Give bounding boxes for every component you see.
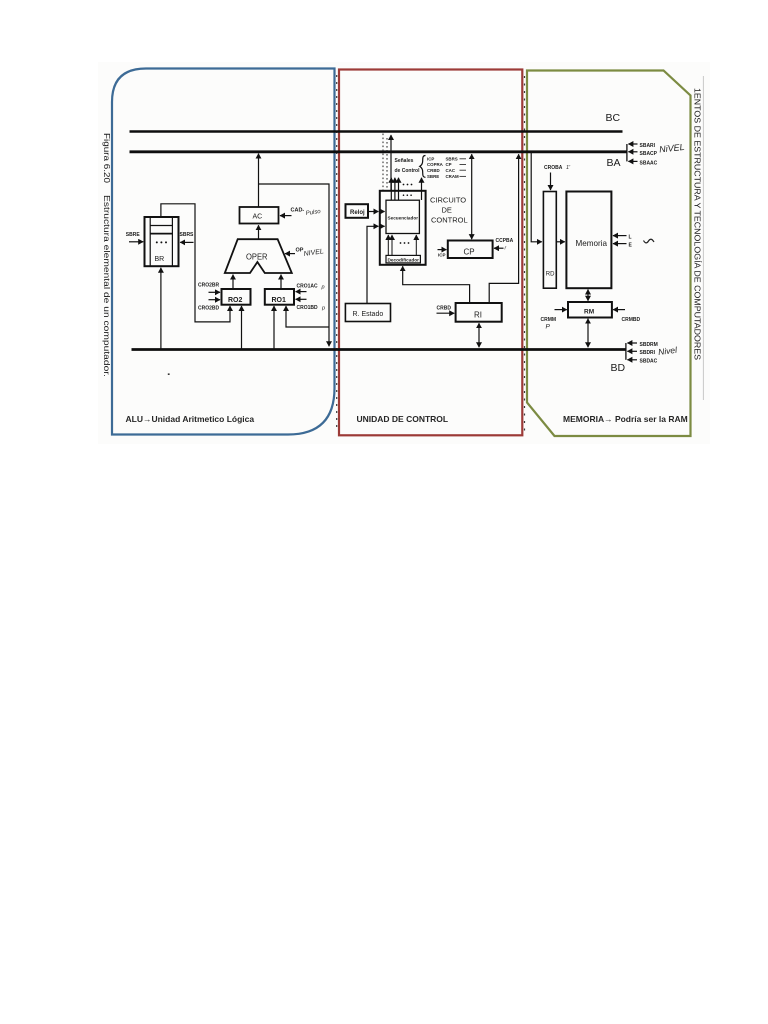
stray dot	[168, 373, 170, 375]
svg-text:CRMBD: CRMBD	[622, 317, 641, 323]
arrow SBAAC	[628, 160, 637, 162]
arrow CCPBA into CP	[494, 247, 504, 249]
svg-text:CRBD: CRBD	[437, 306, 452, 312]
svg-text:OPER: OPER	[246, 252, 268, 261]
svg-text:Decodificador: Decodificador	[388, 257, 420, 262]
arrow Reloj into Secuenciador	[381, 211, 385, 213]
svg-text:CROBA: CROBA	[544, 165, 563, 171]
dots inside control box top	[403, 194, 405, 196]
BA right branch stub	[626, 144, 628, 161]
svg-text:Memoria: Memoria	[576, 238, 608, 248]
arrow OPER to AC	[258, 225, 260, 238]
register RD box	[543, 192, 556, 289]
svg-text:ICP: ICP	[438, 253, 446, 258]
signal list column 2	[446, 157, 460, 180]
wire bus BA down into RD	[531, 153, 542, 242]
svg-text:CP: CP	[446, 162, 452, 167]
arrow CRMBD into RM	[613, 309, 625, 311]
arrow SBRE into BR	[129, 241, 143, 243]
ALU OPER trapezoid	[225, 239, 292, 273]
svg-text:L: L	[629, 234, 632, 240]
svg-text:CP: CP	[464, 248, 475, 257]
CP box	[448, 241, 493, 259]
dotted control line 2	[386, 138, 388, 191]
svg-text:Secuenciador: Secuenciador	[388, 216, 419, 221]
control panel (red)	[339, 70, 522, 436]
svg-text:p: p	[321, 285, 325, 291]
paper tint	[98, 62, 710, 444]
svg-text:CRO2BR: CRO2BR	[198, 283, 220, 289]
svg-text:BR: BR	[155, 256, 165, 263]
register BR box	[145, 217, 179, 266]
svg-text:DE: DE	[442, 206, 452, 215]
svg-text:BC: BC	[606, 112, 621, 124]
bus BC (top)	[130, 130, 623, 132]
scan dashes between red and green panels	[524, 76, 526, 432]
svg-text:SBAAC: SBAAC	[640, 160, 658, 166]
control circuit outer box	[380, 191, 426, 265]
arrow SBRS into BR	[180, 241, 193, 243]
arrow SBDAC	[627, 359, 637, 361]
double arrow RI to bus BD	[478, 323, 480, 347]
wire R.Estado up into control box	[367, 226, 378, 303]
Secuenciador box	[386, 200, 419, 233]
arrow R.Estado into Secuenciador	[381, 225, 385, 227]
svg-text:BA: BA	[607, 157, 621, 169]
wire control box up to bus BC	[390, 135, 392, 191]
svg-text:Señales: Señales	[395, 158, 414, 164]
wire bus BD up into BR bottom	[160, 268, 162, 350]
Reloj box	[346, 204, 369, 218]
double arrow Memoria to RM	[587, 290, 589, 301]
arrow CRO1BD into RO1	[296, 298, 307, 300]
svg-text:Estructura elemental de un com: Estructura elemental de un computador.	[102, 195, 111, 377]
label Senales de Control	[395, 158, 421, 174]
svg-text:BD: BD	[611, 362, 626, 374]
svg-text:SBRE: SBRE	[427, 174, 439, 179]
svg-text:p: p	[321, 306, 325, 312]
svg-text:MEMORIA→ Podría ser la RAM: MEMORIA→ Podría ser la RAM	[563, 414, 688, 424]
arrow E into Memoria	[613, 243, 627, 245]
R. Estado box	[345, 304, 390, 322]
signal list dashes	[460, 159, 467, 177]
svg-text:RD: RD	[546, 272, 555, 278]
wire AC up to bus BA	[258, 154, 260, 207]
double arrow RM to bus BD	[587, 319, 589, 348]
svg-text:CRO2BD: CRO2BD	[198, 306, 220, 312]
arrows out of control box top	[391, 178, 398, 200]
svg-text:CAD-: CAD-	[291, 208, 305, 214]
svg-text:CCPBA: CCPBA	[496, 238, 514, 244]
scan dashes between blue and red panels	[336, 75, 338, 431]
arrow out of control box top right	[421, 178, 423, 200]
svg-text:CAC: CAC	[446, 168, 456, 173]
svg-text:ALU→Unidad Aritmetico Lógica: ALU→Unidad Aritmetico Lógica	[126, 414, 255, 424]
svg-text:ICP: ICP	[427, 157, 434, 162]
svg-text:CIRCUITO: CIRCUITO	[430, 196, 466, 205]
svg-text:SBRE: SBRE	[126, 232, 141, 238]
arrow RO1 to OPER	[280, 275, 282, 289]
svg-text:AC: AC	[253, 214, 263, 221]
register RM box	[568, 302, 612, 318]
brace	[420, 156, 426, 178]
svg-text:SBDRI: SBDRI	[640, 350, 656, 356]
signal list column 1	[427, 157, 444, 180]
svg-text:Figura 6.20: Figura 6.20	[102, 133, 111, 184]
arrow Reloj into control box	[369, 211, 379, 213]
svg-text:CRO1BD: CRO1BD	[297, 305, 319, 311]
svg-text:CRMM: CRMM	[541, 317, 557, 323]
arrow RO2 to OPER	[232, 275, 234, 289]
wire BR top loop to RO2	[161, 204, 230, 322]
wire loop branch into RO1 bottom	[286, 306, 329, 327]
arrow SBDRM	[627, 342, 637, 344]
register RO2 box	[222, 289, 251, 305]
svg-text:SBDRM: SBDRM	[640, 342, 658, 348]
svg-text:Reloj: Reloj	[350, 210, 365, 216]
arrow SBARI	[628, 143, 637, 145]
dots between decod arrows	[400, 242, 402, 244]
svg-text:RO1: RO1	[272, 297, 287, 304]
wire RI up to bus BA	[489, 154, 518, 303]
svg-text:RM: RM	[584, 309, 594, 316]
arrow L into Memoria	[613, 235, 627, 237]
arrow CRO2BD into RO2	[209, 299, 221, 301]
svg-text:CRBD: CRBD	[427, 168, 440, 173]
faint gray rule right of caption	[702, 76, 704, 400]
svg-text:CRO1AC: CRO1AC	[297, 284, 319, 290]
bus BA (second)	[130, 150, 628, 153]
svg-text:CRAM: CRAM	[446, 174, 460, 179]
svg-text:P: P	[546, 324, 551, 331]
arrows Decodificador to Secuenciador	[388, 235, 416, 255]
dots between top arrows	[403, 184, 405, 186]
svg-text:SBARI: SBARI	[640, 143, 656, 149]
arrow CAD into AC	[280, 215, 292, 217]
svg-text:SBDAC: SBDAC	[640, 359, 658, 365]
Decodificador box	[386, 255, 420, 263]
svg-text:SBRS: SBRS	[446, 157, 458, 162]
arrow CROBA down into RD	[550, 173, 552, 191]
svg-text:RO2: RO2	[228, 297, 243, 304]
dotted control line 1	[382, 134, 384, 191]
svg-text:COPRA: COPRA	[427, 162, 444, 167]
wire RI up into Decodificador	[403, 266, 470, 303]
BD right branch stub	[625, 343, 627, 360]
svg-text:RI: RI	[474, 311, 482, 320]
svg-text:SBACP: SBACP	[640, 151, 658, 157]
arrow CRBD into RI	[437, 312, 455, 314]
wire AC feedback loop right side down to bus BD	[259, 184, 330, 346]
register AC box	[240, 207, 279, 224]
svg-text:SBRS: SBRS	[180, 232, 195, 238]
arrow CRO2BR into RO2	[209, 291, 221, 293]
wire bus BD up into RO1	[273, 306, 275, 350]
wire bus BD up into RO2	[241, 306, 243, 350]
svg-text:UNIDAD DE CONTROL: UNIDAD DE CONTROL	[357, 414, 449, 424]
arrow ICP into CP	[438, 249, 447, 251]
Memoria box	[566, 192, 611, 289]
arrow CRO1AC into RO1	[296, 291, 307, 293]
register RO1 box	[265, 289, 294, 305]
svg-text:R. Estado: R. Estado	[353, 311, 384, 318]
ALU panel (blue)	[112, 69, 335, 435]
arrow RD into Memoria	[556, 241, 565, 243]
memory panel (green)	[527, 71, 691, 437]
svg-text:1ENTOS DE ESTRUCTURA Y TECNOLO: 1ENTOS DE ESTRUCTURA Y TECNOLOGÍA DE COM…	[693, 88, 702, 360]
arrow OP into OPER	[285, 253, 295, 255]
double arrow bus BA to CP	[471, 154, 473, 239]
handwritten squiggle near L E	[644, 239, 655, 243]
arrow CRMM into RM	[555, 309, 567, 311]
arrow SBACP	[628, 151, 637, 153]
label CIRCUITO DE CONTROL	[430, 196, 468, 225]
bus BD (bottom)	[132, 348, 627, 351]
svg-text:CONTROL: CONTROL	[431, 215, 468, 224]
arrow SBDRI	[627, 350, 637, 352]
svg-text:de Control: de Control	[395, 168, 421, 174]
RI box	[456, 303, 502, 322]
